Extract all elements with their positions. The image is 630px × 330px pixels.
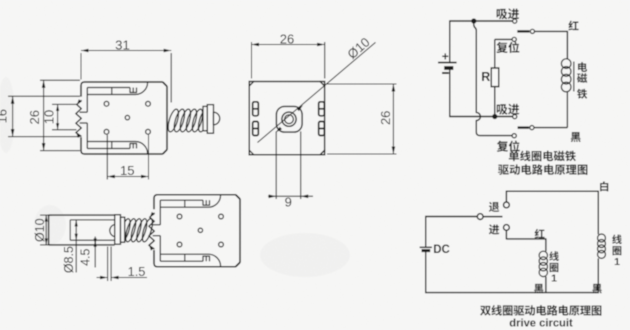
side clips: [253, 102, 259, 116]
svg-text:26: 26: [27, 110, 42, 124]
svg-text:15: 15: [120, 163, 135, 178]
tube bore: [70, 220, 115, 240]
return spring top view: [166, 108, 181, 133]
wire reset branch with hop: [474, 21, 512, 136]
svg-text:1: 1: [614, 256, 620, 268]
caption circuit 2: [480, 305, 601, 316]
wire coil to switch: [566, 92, 568, 128]
switch S3 common: [477, 214, 483, 220]
dimension 1.5: [97, 247, 148, 282]
switch S3 blade: [483, 216, 502, 218]
spring washer: [203, 106, 208, 130]
bottom-right interior fillet: [136, 142, 148, 154]
label dianciti: [577, 62, 587, 99]
label coil2: [612, 234, 622, 267]
center boss: [276, 106, 302, 132]
dimension 15: [107, 135, 148, 180]
plunger flange: [207, 105, 213, 134]
svg-text:9: 9: [285, 194, 292, 209]
caption circuit 1 line 2: [498, 164, 587, 175]
contact advance: [504, 225, 510, 231]
resistor R: [491, 68, 499, 87]
svg-text:1: 1: [551, 273, 557, 285]
switch S2 blade: [530, 126, 534, 130]
plunger flange side: [115, 215, 121, 245]
label xijin top: [497, 8, 520, 19]
switch S1 pull-in contact: [513, 19, 517, 23]
battery B1: [438, 21, 457, 117]
svg-text:31: 31: [115, 38, 130, 53]
node junction top: [471, 18, 476, 23]
wire bottom: [449, 116, 512, 118]
coil 2 (right): [598, 234, 606, 258]
label fuwei top: [496, 42, 519, 53]
label black right: [592, 284, 602, 293]
solenoid body side view (plunger extended): [149, 195, 240, 267]
label tui: [489, 202, 499, 212]
dimension O10 shaft: [33, 215, 52, 245]
bottom notch: [130, 144, 137, 149]
battery DC: [420, 216, 450, 292]
center bore inner: [285, 115, 294, 124]
center hole: [125, 115, 129, 119]
solenoid body top view outline: [76, 82, 167, 154]
label black left: [534, 284, 544, 293]
caption circuit 1 line 1: [509, 151, 576, 162]
dimension 10: [41, 104, 76, 129]
svg-text:1.5: 1.5: [128, 264, 146, 279]
center bore outer: [282, 112, 296, 126]
coil electromagnet: [561, 59, 574, 92]
dimension 4.5: [79, 237, 97, 268]
dimension 26 left: [27, 80, 80, 150]
svg-text:26: 26: [378, 111, 393, 125]
svg-text:Ø10: Ø10: [33, 218, 47, 242]
corner chamfers: [249, 82, 254, 87]
reset contact top: [512, 37, 516, 41]
label fuwei bottom: [497, 141, 520, 152]
wire R top: [494, 39, 496, 68]
label red: [568, 21, 578, 31]
solenoid body front view: [249, 82, 324, 155]
dimension 16: [0, 96, 80, 136]
wire coil1 bottom: [545, 277, 547, 293]
svg-text:DC: DC: [433, 244, 450, 256]
rod dome: [110, 224, 115, 236]
wire bottom rail: [425, 292, 599, 294]
top-right interior fillet: [136, 82, 148, 94]
dimension 9: [268, 194, 313, 209]
label white: [600, 181, 608, 191]
wire R bottom: [494, 87, 496, 117]
svg-text:4.5: 4.5: [79, 248, 93, 265]
leader line O10: [258, 42, 376, 142]
wire top: [449, 20, 512, 22]
label jin: [489, 224, 499, 234]
spring washer side: [121, 217, 125, 242]
plunger rod section: [80, 112, 88, 123]
coil 1 (middle): [539, 251, 547, 276]
top notch: [130, 88, 137, 93]
wire DC top: [425, 216, 477, 218]
wire advance branch: [506, 230, 546, 251]
label black: [571, 132, 581, 142]
dimension 26 top: [252, 31, 325, 78]
wire right down: [566, 31, 568, 59]
wire to coil: [535, 30, 568, 32]
label coil1: [549, 251, 559, 284]
wire retract to top: [506, 191, 598, 234]
reset contact bottom: [512, 134, 516, 138]
svg-text:26: 26: [280, 31, 294, 46]
plunger break zigzag: [76, 100, 82, 136]
wire coil2 bottom: [597, 258, 599, 292]
mounting holes: [104, 101, 109, 106]
switch S1 blade: [517, 30, 529, 32]
label xijin bottom: [497, 104, 520, 115]
svg-text:Ø8.5: Ø8.5: [62, 246, 76, 273]
svg-text:drive circuit: drive circuit: [509, 318, 573, 330]
plunger tip: [214, 112, 220, 124]
dimension 26 right: [327, 84, 397, 154]
switch S2 pull-in contact: [513, 115, 517, 119]
dimension 31: [81, 38, 171, 103]
svg-text:+: +: [442, 49, 449, 63]
return spring side view: [118, 218, 132, 243]
node junction bottom: [492, 114, 497, 119]
svg-text:10: 10: [41, 110, 56, 124]
contact retract: [504, 202, 510, 208]
svg-text:16: 16: [0, 109, 10, 123]
plunger tube: [49, 215, 115, 245]
label red 2: [535, 229, 545, 239]
svg-text:R: R: [481, 70, 490, 84]
guide channel below: [275, 131, 277, 199]
dimension O8.5: [62, 220, 78, 273]
